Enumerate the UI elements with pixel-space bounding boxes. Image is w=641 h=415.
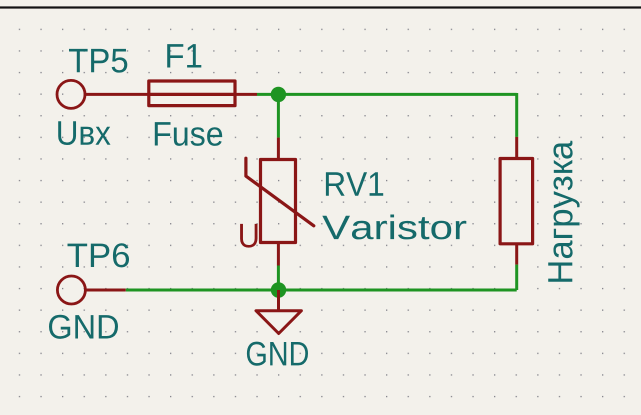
wire right vertical bottom: [515, 265, 518, 290]
label TP6: [68, 243, 130, 267]
label RV1: [326, 172, 383, 195]
varistor RV1 body: [246, 158, 314, 242]
label Fuse: [155, 122, 222, 146]
pin TP5 right: [85, 93, 150, 96]
junction top: [271, 87, 286, 102]
label GND left: [49, 315, 118, 339]
pin RV1 bottom: [277, 243, 280, 266]
pin TP6 right: [85, 289, 126, 292]
label Uvx: [58, 121, 110, 145]
fuse F1 body: [149, 81, 235, 106]
ground symbol triangle: [256, 311, 301, 334]
label load Nagruzka (rotated): [548, 141, 579, 282]
label Varistor: [322, 214, 466, 239]
resistor load body: [500, 159, 532, 244]
label GND bottom: [247, 342, 308, 366]
test point TP6: [57, 276, 85, 304]
wire varistor bottom: [277, 266, 280, 291]
wire right vertical top: [515, 93, 518, 137]
pin F1 right: [235, 93, 257, 96]
pin RV1 top: [277, 138, 280, 160]
ground symbol stem: [277, 290, 280, 311]
wire varistor top: [277, 94, 280, 137]
varistor U label: [240, 224, 257, 248]
wire bottom horizontal: [126, 289, 517, 292]
label F1: [167, 44, 201, 67]
wire top horizontal: [257, 93, 517, 96]
toolbar divider line: [0, 6, 641, 8]
label TP5: [69, 49, 127, 73]
junction bottom: [271, 282, 286, 297]
test point TP5: [57, 80, 85, 108]
pin load bottom: [515, 244, 518, 265]
pin load top: [515, 137, 518, 159]
